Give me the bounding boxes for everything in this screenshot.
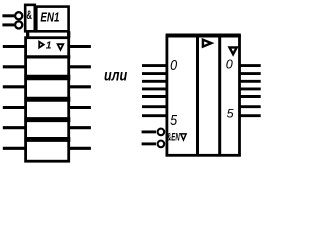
svg-text:EN1: EN1 — [40, 10, 59, 25]
svg-text:1: 1 — [46, 41, 52, 52]
svg-text:&: & — [26, 8, 32, 22]
svg-text:0: 0 — [170, 58, 177, 74]
svg-text:&EN: &EN — [167, 132, 180, 144]
svg-text:5: 5 — [227, 109, 235, 121]
svg-text:0: 0 — [226, 58, 233, 72]
svg-text:или: или — [104, 67, 128, 84]
svg-text:5: 5 — [170, 112, 178, 129]
